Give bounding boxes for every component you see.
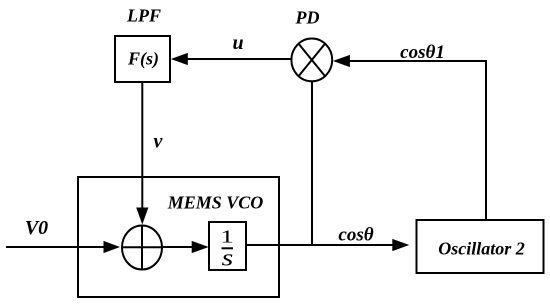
- svg-text:cosθ: cosθ: [338, 225, 373, 246]
- svg-text:s: s: [222, 244, 234, 271]
- arrowhead into F(s): [171, 53, 188, 65]
- svg-text:cosθ1: cosθ1: [400, 42, 445, 63]
- svg-text:LPF: LPF: [126, 5, 161, 25]
- svg-text:V0: V0: [25, 217, 48, 239]
- integrator block 1/s: [209, 222, 246, 271]
- arrowhead into Oscillator 2: [392, 239, 409, 251]
- block MEMS VCO enclosure: [78, 177, 279, 297]
- wire cos&#952; from integrator to Oscillator 2: [246, 244, 393, 246]
- svg-text:u: u: [232, 32, 243, 54]
- wire cos&#952;1 from Oscillator 2 up and left to PD: [348, 61, 486, 220]
- svg-text:MEMS VCO: MEMS VCO: [167, 193, 264, 213]
- svg-text:PD: PD: [295, 7, 320, 27]
- block Oscillator 2: [417, 220, 544, 273]
- svg-text:1: 1: [220, 227, 233, 247]
- arrowhead into PD right side: [333, 55, 350, 67]
- wire v from F(s) down to summing junction: [141, 82, 143, 209]
- phase detector PD multiplier circle: [291, 39, 332, 82]
- summing junction circle with cross: [122, 226, 162, 270]
- wire V0 input: [6, 246, 105, 248]
- wire summing junction to integrator: [162, 246, 194, 248]
- block F(s) low-pass filter: [115, 36, 170, 82]
- wire u from PD to F(s): [186, 58, 292, 60]
- svg-text:Oscillator 2: Oscillator 2: [438, 239, 525, 259]
- svg-text:F(s): F(s): [127, 48, 159, 69]
- svg-text:v: v: [154, 131, 164, 153]
- arrowhead into integrator: [192, 241, 209, 253]
- arrowhead into summing junction left: [104, 241, 121, 253]
- arrowhead into summing junction top: [136, 208, 148, 225]
- junction wire up to PD: [311, 82, 313, 246]
